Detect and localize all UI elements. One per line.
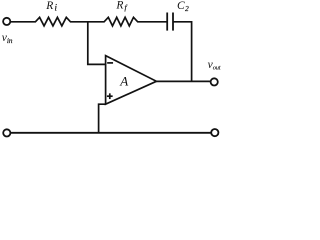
- svg-text:R: R: [115, 0, 123, 12]
- svg-text:i: i: [55, 3, 58, 13]
- svg-text:f: f: [125, 3, 128, 12]
- svg-text:C: C: [177, 0, 185, 12]
- svg-text:R: R: [45, 0, 53, 12]
- svg-text:2: 2: [185, 4, 189, 13]
- svg-text:out: out: [213, 65, 221, 72]
- svg-text:in: in: [7, 36, 13, 45]
- svg-text:A: A: [119, 73, 128, 88]
